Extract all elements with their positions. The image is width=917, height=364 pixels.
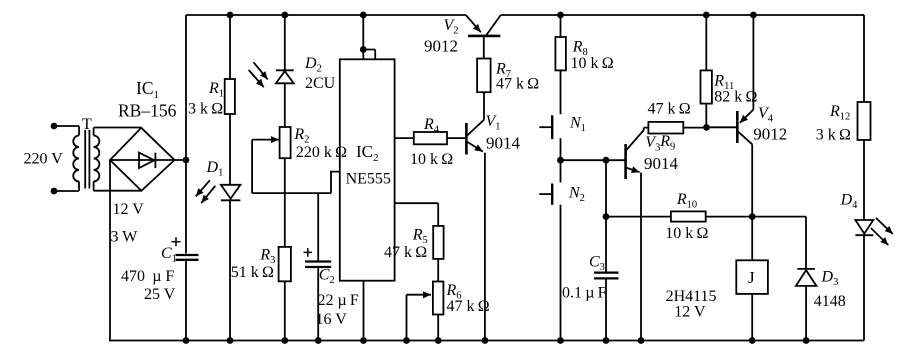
svg-text:2H4115: 2H4115 [666, 288, 717, 305]
svg-text:2CU: 2CU [305, 75, 336, 92]
svg-text:D2: D2 [304, 55, 322, 75]
svg-text:82 k Ω: 82 k Ω [714, 89, 757, 106]
svg-text:3 k Ω: 3 k Ω [816, 127, 851, 144]
svg-text:C2: C2 [319, 267, 335, 287]
svg-text:R12: R12 [829, 103, 850, 123]
svg-text:3 k Ω: 3 k Ω [188, 101, 223, 118]
svg-text:T: T [82, 116, 92, 133]
svg-text:16 V: 16 V [316, 311, 348, 328]
svg-text:R1: R1 [208, 80, 224, 100]
svg-text:9012: 9012 [753, 125, 787, 144]
svg-text:9014: 9014 [486, 134, 521, 153]
svg-text:4148: 4148 [814, 293, 846, 310]
svg-text:N1: N1 [569, 115, 586, 135]
svg-text:51 k Ω: 51 k Ω [231, 264, 274, 281]
svg-text:D3: D3 [821, 269, 839, 289]
svg-text:47 k Ω: 47 k Ω [384, 244, 427, 261]
svg-text:3 W: 3 W [111, 229, 139, 246]
svg-text:RB–156: RB–156 [118, 101, 177, 121]
svg-text:D1: D1 [206, 159, 224, 179]
svg-text:10 k Ω: 10 k Ω [571, 55, 614, 72]
svg-text:10 k Ω: 10 k Ω [410, 151, 453, 168]
svg-text:9012: 9012 [424, 37, 458, 56]
svg-text:V2: V2 [444, 17, 459, 37]
svg-text:12 V: 12 V [113, 201, 145, 218]
svg-text:25 V: 25 V [144, 286, 176, 303]
svg-text:47 k Ω: 47 k Ω [496, 76, 539, 93]
svg-text:R10: R10 [676, 191, 697, 211]
svg-text:10 k Ω: 10 k Ω [665, 225, 708, 242]
svg-text:IC1: IC1 [136, 78, 159, 101]
svg-text:22 µ F: 22 µ F [318, 292, 359, 309]
svg-text:D4: D4 [840, 192, 859, 212]
svg-text:47 k Ω: 47 k Ω [447, 298, 490, 315]
svg-text:C1: C1 [161, 245, 177, 265]
svg-text:R9: R9 [659, 133, 675, 153]
svg-text:V3: V3 [645, 134, 660, 154]
svg-text:9014: 9014 [644, 154, 679, 173]
svg-text:R2: R2 [293, 126, 309, 146]
svg-text:220 k Ω: 220 k Ω [296, 144, 347, 161]
svg-text:C3: C3 [589, 254, 605, 274]
svg-text:N2: N2 [568, 185, 585, 205]
svg-text:NE555: NE555 [346, 171, 391, 188]
svg-text:V4: V4 [758, 105, 774, 125]
svg-text:J: J [748, 268, 755, 287]
svg-text:47 k Ω: 47 k Ω [648, 101, 691, 118]
svg-text:V1: V1 [486, 113, 501, 133]
svg-text:12 V: 12 V [674, 304, 706, 321]
svg-text:R4: R4 [423, 116, 440, 136]
svg-text:220 V: 220 V [24, 151, 64, 168]
svg-text:470 µ F: 470 µ F [121, 268, 174, 285]
svg-text:0.1 µ F: 0.1 µ F [562, 285, 607, 302]
